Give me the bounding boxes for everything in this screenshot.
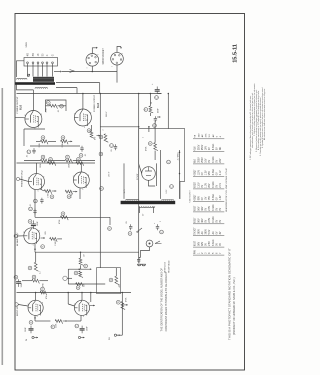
wire bus x100 down [99, 94, 101, 268]
wire bias row2 [48, 160, 65, 162]
svg-text:470: 470 [95, 137, 97, 140]
svg-text:R: R [84, 265, 87, 267]
svg-text:2: 2 [160, 221, 162, 222]
svg-text:95V: 95V [209, 171, 211, 176]
resistor R34 [154, 143, 158, 151]
svg-text:R: R [41, 245, 44, 247]
svg-text:1.4V: 1.4V [220, 195, 222, 200]
svg-text:2.8V: 2.8V [209, 241, 211, 246]
wire y217 stub [109, 217, 111, 225]
wire terminal 5 to T1 [46, 64, 48, 77]
svg-text:1.2V: 1.2V [206, 183, 208, 188]
wire bus x138 down [138, 94, 140, 259]
svg-text:C: C [28, 151, 31, 153]
arrow V5 out [41, 237, 46, 239]
svg-text:20MF: 20MF [25, 326, 27, 332]
wire feedback loop [46, 100, 67, 112]
ref C12 [34, 199, 38, 203]
ref C10 [27, 150, 31, 154]
svg-text:6SQ7: 6SQ7 [195, 194, 197, 201]
svg-text:2.2: 2.2 [40, 271, 42, 274]
arrow from R20 [73, 191, 78, 193]
svg-text:C: C [110, 144, 113, 146]
svg-text:INTERLOCK: INTERLOCK [165, 261, 167, 273]
wire lamp drop [141, 247, 150, 258]
svg-text:PIN: PIN [195, 250, 197, 254]
tube V7 input [74, 300, 89, 315]
svg-text:250V: 250V [202, 157, 204, 163]
capacitor C10 [33, 148, 35, 150]
wire V5 grid [18, 235, 24, 237]
wire V3 cathode down [34, 190, 36, 218]
T1 laminated core [15, 82, 55, 85]
terminal ground V7 [78, 336, 80, 338]
tube V1 6L6 power output [25, 111, 42, 128]
wire border to V1 grid [16, 116, 25, 119]
svg-text:40MF: 40MF [158, 107, 160, 113]
wire R32 up [149, 94, 151, 106]
terminal strip TS1 [24, 58, 58, 67]
wire from R10 [58, 105, 67, 107]
capacitor C11 [81, 146, 83, 148]
wire speaker common [62, 71, 117, 73]
svg-text:6.3AC: 6.3AC [212, 216, 215, 223]
svg-text:0V: 0V [216, 159, 218, 162]
svg-text:0V: 0V [206, 207, 208, 210]
svg-text:AC: AC [201, 134, 204, 137]
svg-text:8: 8 [43, 176, 44, 178]
junction R25 [80, 251, 82, 253]
svg-text:0V: 0V [216, 197, 218, 200]
capacitor C12 [41, 198, 43, 200]
ref C23 [160, 230, 164, 234]
svg-text:1: 1 [112, 66, 114, 67]
arrow V7 out [90, 305, 95, 307]
ref R32 [144, 108, 148, 112]
svg-text:R: R [100, 136, 103, 138]
terminal phono bottom [114, 334, 116, 336]
svg-text:TUBE SOCKET: TUBE SOCKET [190, 189, 192, 203]
terminal circle V3 grid [16, 177, 19, 180]
svg-text:100K: 100K [40, 163, 42, 168]
resistor R17 in rail [48, 162, 56, 166]
svg-text:5: 5 [37, 316, 38, 318]
svg-text:6SJ7: 6SJ7 [195, 217, 197, 223]
resistor R27 [76, 283, 83, 287]
wire bias row [24, 160, 41, 162]
junction at SO1 ground [92, 71, 94, 73]
capacitor C13 coupling [34, 209, 36, 211]
input box outline [0, 267, 1, 269]
svg-text:R: R [49, 158, 52, 160]
arrow from R19 [52, 190, 57, 192]
arrow row 321 [63, 320, 67, 322]
ref R18 [77, 158, 81, 162]
svg-text:5: 5 [84, 127, 85, 129]
wire R24 right [39, 280, 48, 282]
wire bottom rail inverter [35, 216, 110, 218]
ref R31 [116, 300, 120, 304]
wire grid bus [23, 129, 25, 146]
svg-text:3: 3 [23, 232, 24, 234]
svg-text:R: R [66, 156, 69, 158]
wire terminal 2 to T1 [32, 64, 34, 77]
ref C24 psu [167, 160, 171, 164]
svg-text:3: 3 [74, 114, 75, 116]
wire TS1 left to primary [17, 61, 25, 77]
speaker socket SO2 [111, 52, 124, 65]
wire x179 drop [179, 150, 181, 199]
wire R23 up [35, 252, 37, 262]
wire row 284 [68, 283, 105, 285]
wire terminal 6 to T1 [52, 64, 54, 77]
wire bus x122 down [121, 293, 123, 336]
svg-text:1M: 1M [84, 284, 86, 287]
junction V7 plate [81, 292, 83, 294]
svg-text:R: R [88, 129, 91, 131]
wire R25 top [80, 252, 82, 258]
wire V3 grid [20, 179, 29, 181]
ref C19 [155, 96, 159, 100]
ref R15 [41, 155, 45, 159]
wire R19 left [40, 189, 44, 191]
svg-text:1 MEG: 1 MEG [55, 240, 57, 246]
arrowhead SO2 [120, 47, 122, 49]
wire x168 down [167, 94, 169, 129]
svg-text:6.3AC: 6.3AC [212, 168, 215, 175]
svg-text:.9V: .9V [206, 196, 208, 200]
svg-text:20MF: 20MF [87, 325, 89, 331]
resistor R23 [34, 262, 38, 271]
svg-text:R: R [77, 158, 80, 160]
svg-text:8: 8 [88, 175, 89, 177]
svg-text:.02: .02 [85, 154, 87, 157]
svg-text:PHASE INV 6SQ7: PHASE INV 6SQ7 [21, 169, 24, 187]
svg-text:THE IDENTIFICATION OF THE MODE: THE IDENTIFICATION OF THE MODEL NUMBER A… [160, 268, 163, 332]
svg-text:5Y3GT: 5Y3GT [137, 173, 139, 180]
resistor R12 [40, 140, 47, 144]
ref R17 [49, 158, 53, 162]
junction B+ at x100 [100, 93, 102, 95]
svg-text:R: R [47, 101, 50, 103]
switch SW1 [138, 228, 143, 232]
ref C8 [60, 104, 64, 108]
resistor R22 [50, 238, 57, 242]
svg-text:96V: 96V [199, 218, 201, 223]
junction row 269 [78, 268, 80, 270]
wire V6 grid [18, 305, 28, 307]
wire B+ to C19 [157, 93, 161, 95]
svg-text:R: R [149, 142, 152, 144]
wire row 269 [68, 268, 87, 270]
svg-text:0V: 0V [216, 243, 218, 246]
ref C14 [28, 220, 32, 224]
resistor R30 [55, 320, 62, 324]
junction row 127 [138, 126, 140, 128]
svg-text:C: C [167, 161, 170, 163]
wire rect to bus [149, 180, 156, 186]
svg-text:10MF: 10MF [21, 282, 23, 288]
wire T2 sec right [152, 207, 154, 214]
tube V6 input [28, 300, 43, 315]
svg-text:R: R [110, 279, 113, 281]
wire x160 drop [160, 150, 162, 199]
svg-text:3: 3 [28, 304, 29, 306]
svg-text:0V: 0V [202, 172, 204, 175]
wire plate feed drop [99, 83, 101, 94]
components cluster x104 [104, 134, 108, 143]
svg-text:1: 1 [87, 68, 89, 69]
ref C15 [14, 275, 18, 279]
capacitor C20 [154, 116, 156, 118]
resistor R13 [61, 140, 68, 144]
svg-text:.02: .02 [27, 155, 29, 158]
svg-text:0V: 0V [220, 219, 222, 222]
svg-text:AF AMP 6SQ7: AF AMP 6SQ7 [16, 232, 19, 246]
svg-text:8: 8 [90, 112, 91, 114]
svg-text:R: R [145, 108, 148, 110]
svg-text:20MF: 20MF [37, 220, 39, 226]
svg-text:0V: 0V [206, 219, 208, 222]
resistor R21 in rail [60, 216, 68, 220]
ref C11 [79, 154, 83, 158]
junction V5 down [34, 248, 36, 250]
T1 primary dot [28, 74, 30, 76]
wire plate feed upper [56, 82, 100, 84]
ref R27 [76, 286, 80, 290]
svg-text:360V: 360V [199, 229, 201, 235]
T2 core [121, 201, 176, 204]
svg-text:6SQ7: 6SQ7 [195, 169, 197, 176]
resistor R15 [40, 159, 47, 163]
svg-text:470K: 470K [59, 219, 61, 224]
svg-text:100K: 100K [69, 163, 71, 168]
svg-text:R: R [100, 153, 103, 155]
wire V3 plate up [36, 163, 38, 174]
svg-text:4O: 4O [28, 53, 30, 56]
wire terminal 1 to T1 [27, 64, 29, 77]
power transformer T2 primary coil left [126, 199, 139, 200]
svg-text:88V: 88V [199, 196, 201, 201]
svg-text:5.0V: 5.0V [209, 229, 211, 234]
capacitor C21 [115, 144, 117, 146]
wire phono term [67, 277, 72, 279]
wire V7 screen drop [67, 293, 69, 305]
svg-text:1 MEG: 1 MEG [71, 192, 73, 198]
wire V7 plate up [81, 293, 83, 301]
svg-text:42V: 42V [202, 218, 204, 223]
svg-text:6L6: 6L6 [19, 104, 23, 110]
wire terminal 3 to T1 [37, 64, 39, 77]
ref R30 [51, 325, 55, 329]
svg-text:7: 7 [143, 137, 145, 138]
svg-text:C: C [29, 208, 32, 210]
wire screen drop [76, 88, 78, 94]
svg-text:8: 8 [41, 114, 42, 116]
resistor R24 [32, 279, 39, 283]
svg-text:6.3AC: 6.3AC [212, 204, 215, 211]
resistor R31 [121, 302, 125, 310]
wire screen feed [56, 87, 77, 89]
ref C17 [75, 324, 79, 328]
svg-text:250V: 250V [202, 144, 204, 150]
wire T2 sec left [138, 207, 140, 214]
tube voltage chart grid [193, 139, 224, 255]
svg-text:SPKR: SPKR [26, 41, 28, 47]
svg-text:6.3AC: 6.3AC [212, 181, 215, 188]
svg-text:470K: 470K [43, 282, 45, 287]
svg-text:0V: 0V [216, 147, 218, 150]
svg-text:R: R [100, 187, 103, 189]
T1 bottom coil [35, 88, 48, 89]
junction psu box a [179, 152, 181, 154]
svg-text:R: R [51, 196, 54, 198]
junction V7 right [90, 292, 92, 294]
ref R24 [32, 275, 36, 279]
electrolytic C14 [32, 220, 34, 224]
svg-text:C: C [155, 96, 158, 98]
svg-text:6SJ7: 6SJ7 [195, 205, 197, 211]
terminal 6 on TS1 [52, 62, 54, 64]
svg-text:16V: 16V [206, 146, 208, 151]
svg-text:All resistors one half watt un: All resistors one half watt unless other… [263, 88, 266, 140]
junction psu box b [179, 173, 181, 175]
ref C13 [29, 207, 33, 211]
ref R13 [61, 136, 65, 140]
svg-text:0V: 0V [209, 147, 211, 150]
svg-text:0V: 0V [216, 184, 218, 187]
svg-text:.05: .05 [111, 149, 113, 152]
wire R14 up [91, 125, 93, 131]
terminal ground V6 [32, 336, 34, 338]
wire T1 to speaker line [54, 71, 60, 73]
svg-text:NC: NC [220, 146, 222, 150]
resistor R19 [44, 190, 51, 194]
svg-text:16V: 16V [206, 158, 208, 163]
svg-text:2: 2 [98, 54, 100, 55]
wire inverter top rail [17, 162, 96, 164]
junction x168 [168, 93, 170, 95]
resistor R18 in rail [76, 162, 84, 166]
arrow near C20 [157, 116, 161, 118]
svg-text:R: R [77, 286, 80, 288]
resistor R25 [79, 258, 83, 265]
junction bus x122 [122, 292, 124, 294]
svg-text:6L6: 6L6 [96, 102, 100, 108]
capacitor C22 line [130, 224, 132, 226]
svg-text:(PRODUCT OF HOWARD W. SAMS & C: (PRODUCT OF HOWARD W. SAMS & CO., INC.) [232, 277, 236, 335]
tube V5 6SQ7 af amplifier [24, 228, 40, 244]
svg-text:5Y3GT: 5Y3GT [195, 227, 197, 235]
svg-text:2: 2 [122, 53, 124, 54]
svg-text:5: 5 [83, 316, 84, 318]
wire row 321b [67, 320, 81, 322]
wire x124 drop [123, 163, 125, 199]
svg-text:1.2V: 1.2V [206, 170, 208, 175]
svg-text:6.3AC: 6.3AC [212, 156, 215, 163]
wire V1 plate [32, 90, 34, 111]
svg-text:0V: 0V [202, 197, 204, 200]
svg-text:117V: 117V [124, 188, 126, 193]
svg-text:350V: 350V [199, 144, 201, 150]
wire V7 down [80, 315, 82, 321]
wire plug feed [139, 257, 141, 263]
svg-text:R: R [75, 272, 78, 274]
arrow R31 [122, 304, 128, 306]
wire R22 right [57, 238, 62, 240]
resistor R20 [65, 190, 72, 194]
junction V2 plate [82, 93, 84, 95]
ref R35 [108, 227, 112, 231]
ref R20 [67, 195, 71, 199]
junction R34 top [148, 126, 150, 128]
svg-text:1 MEG: 1 MEG [48, 192, 50, 198]
svg-text:8: 8 [39, 231, 40, 233]
svg-text:220K: 220K [46, 107, 48, 112]
border frame [15, 14, 245, 371]
svg-text:8: 8 [88, 303, 89, 305]
ref R19 [50, 195, 54, 199]
svg-text:THIS IS A PHOTOFACT STANDARD N: THIS IS A PHOTOFACT STANDARD NOTATION SC… [228, 248, 232, 340]
wire mid row [30, 145, 80, 147]
svg-text:180 V: 180 V [106, 111, 108, 117]
terminal 5 on TS1 [46, 62, 48, 64]
phono box [97, 268, 121, 294]
terminal 1 on TS1 [27, 62, 29, 64]
wire to R10 [46, 105, 50, 107]
wire bias row3 [73, 160, 95, 162]
svg-text:R: R [62, 136, 65, 138]
svg-text:3: 3 [28, 178, 29, 180]
wire long rail 252 [35, 251, 139, 253]
svg-text:22V: 22V [220, 158, 222, 163]
T2 secondary coil [139, 206, 154, 207]
ref C16 [29, 321, 33, 325]
capacitor C18 on bus [138, 257, 140, 259]
svg-text:2.1V: 2.1V [220, 170, 222, 175]
wire SO2 bus down [116, 72, 118, 83]
svg-text:3: 3 [74, 304, 75, 306]
capacitor C23 line [157, 224, 159, 226]
junction V6 [34, 317, 36, 319]
psu box [139, 129, 185, 199]
svg-text:R: R [42, 156, 45, 158]
svg-text:0V: 0V [220, 207, 222, 210]
wire V5 down [34, 244, 36, 252]
svg-text:250K: 250K [39, 142, 41, 147]
svg-text:C: C [60, 105, 63, 107]
ref R26 [74, 271, 78, 275]
svg-text:8O: 8O [33, 53, 35, 56]
ref C25 psu [170, 185, 174, 189]
wire SO2 down [116, 65, 118, 72]
junction V6 plate [35, 292, 37, 294]
ref R12 [41, 136, 45, 140]
terminal input phono [63, 276, 67, 280]
svg-text:2.8V: 2.8V [209, 217, 211, 222]
speaker socket SO1 [86, 54, 99, 67]
svg-text:AC: AC [212, 231, 215, 235]
svg-text:0V: 0V [216, 219, 218, 222]
svg-text:15.5-11: 15.5-11 [233, 44, 239, 63]
wire R34 up [148, 127, 150, 132]
switch SW2 interlock [155, 241, 162, 244]
wire V4 plate up [80, 163, 82, 172]
svg-text:1M: 1M [84, 254, 86, 257]
ref R10 [46, 101, 50, 105]
svg-text:RECEPTACLE: RECEPTACLE [168, 260, 171, 273]
wire B+ rail [17, 93, 162, 95]
